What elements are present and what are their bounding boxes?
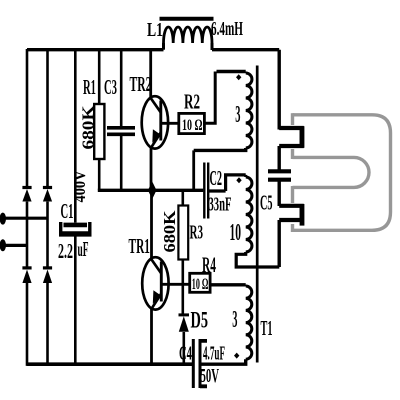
- wire winding3 return to mid node: [192, 150, 195, 190]
- wire TR2 emitter down: [150, 148, 153, 191]
- wire bridge right vertical top: [46, 49, 49, 186]
- lamp (CFL tube, gray outline): [293, 113, 391, 232]
- svg-text:3: 3: [232, 307, 237, 333]
- wire bridge right vertical bottom: [46, 282, 49, 366]
- T1 winding 10 (middle): [226, 175, 280, 267]
- wire TR2 collector: [149, 49, 152, 97]
- wire filament to C5: [278, 146, 281, 171]
- wire bridge right vertical middle: [46, 202, 49, 267]
- capacitor C4 (electrolytic): [193, 339, 207, 388]
- transistor TR2: [142, 96, 168, 148]
- wire bridge left vertical middle: [26, 202, 29, 267]
- diode D2: [43, 188, 52, 202]
- wire R2 to winding 3 top: [204, 72, 215, 124]
- svg-text:680K: 680K: [79, 105, 98, 149]
- svg-text:50V: 50V: [201, 365, 220, 387]
- svg-text:C2: C2: [210, 166, 223, 190]
- svg-text:10 Ω: 10 Ω: [192, 276, 209, 293]
- resistor R1: [94, 104, 104, 159]
- wire right vertical to lamp: [278, 50, 281, 130]
- wire TR2 base lead: [161, 122, 179, 125]
- wire R1 branch top: [98, 49, 101, 104]
- wire bridge left vertical bottom: [26, 282, 29, 366]
- wire C3 bottom lead: [120, 136, 123, 190]
- svg-text:R2: R2: [184, 90, 200, 114]
- svg-text:680K: 680K: [160, 210, 179, 252]
- wire top rail right: [212, 48, 279, 51]
- svg-text:6.4mH: 6.4mH: [211, 18, 243, 40]
- wire C5 to filament bottom: [278, 180, 281, 206]
- winding 3 top polarity dot: [236, 74, 241, 80]
- svg-text:uF: uF: [78, 237, 89, 261]
- svg-text:3: 3: [235, 102, 240, 128]
- svg-text:L1: L1: [147, 19, 163, 41]
- svg-text:400V: 400V: [70, 170, 89, 203]
- svg-text:R1: R1: [83, 75, 96, 99]
- wire bottom rail: [27, 362, 192, 366]
- wire C1 branch vertical: [74, 49, 77, 364]
- resistor R2: [179, 113, 205, 133]
- T1 winding 3 (top): [194, 72, 252, 151]
- svg-text:R3: R3: [190, 222, 204, 244]
- wire terminal 2: [3, 244, 27, 247]
- wire R1 bottom lead: [98, 159, 101, 190]
- inductor L1: [160, 19, 214, 50]
- diode D3: [22, 268, 31, 283]
- input terminal 2: [0, 239, 6, 251]
- transistor TR1: [142, 257, 168, 309]
- wire filament bottom down: [278, 220, 281, 267]
- svg-text:C4: C4: [179, 343, 192, 365]
- wire mid horizontal node: [98, 189, 204, 192]
- resistor R3: [178, 192, 188, 314]
- svg-text:C5: C5: [260, 191, 273, 215]
- wire C3 branch top: [120, 49, 123, 126]
- svg-text:TR1: TR1: [129, 234, 151, 258]
- wire bridge left vertical top: [26, 49, 29, 186]
- wire TR1 collector: [150, 190, 153, 258]
- input terminal 1: [0, 213, 6, 225]
- diode D1: [22, 188, 31, 202]
- svg-text:33nF: 33nF: [209, 194, 232, 216]
- capacitor C1 (electrolytic): [59, 222, 92, 234]
- resistor R4: [190, 273, 210, 292]
- winding 3 bottom polarity dot: [234, 353, 239, 359]
- svg-text:T1: T1: [261, 316, 273, 340]
- wire terminal 1: [3, 217, 48, 220]
- wire TR1 base lead: [161, 283, 190, 286]
- svg-text:TR2: TR2: [130, 72, 152, 96]
- lamp filament bottom: [279, 206, 302, 220]
- svg-text:10 Ω: 10 Ω: [182, 117, 203, 134]
- svg-text:2.2: 2.2: [58, 239, 73, 263]
- diode D5: [179, 315, 190, 364]
- diode D4: [43, 268, 52, 283]
- wire TR1 emitter down: [150, 309, 153, 366]
- svg-text:C3: C3: [104, 75, 117, 99]
- wire top rail left: [27, 48, 164, 51]
- winding 10 polarity dot: [236, 177, 241, 183]
- capacitor C2: [204, 163, 208, 219]
- svg-text:4.7uF: 4.7uF: [203, 343, 225, 365]
- svg-text:D5: D5: [191, 308, 209, 333]
- T1 winding 3 (bottom): [202, 285, 252, 364]
- capacitor C3: [107, 128, 135, 135]
- wire C2 right to winding 10: [208, 189, 225, 192]
- junction node (mid): [148, 182, 157, 200]
- lamp filament top: [279, 128, 302, 146]
- svg-text:R4: R4: [202, 252, 216, 277]
- svg-text:10: 10: [230, 220, 242, 246]
- capacitor C5: [268, 171, 291, 179]
- transformer T1 core: [256, 66, 259, 363]
